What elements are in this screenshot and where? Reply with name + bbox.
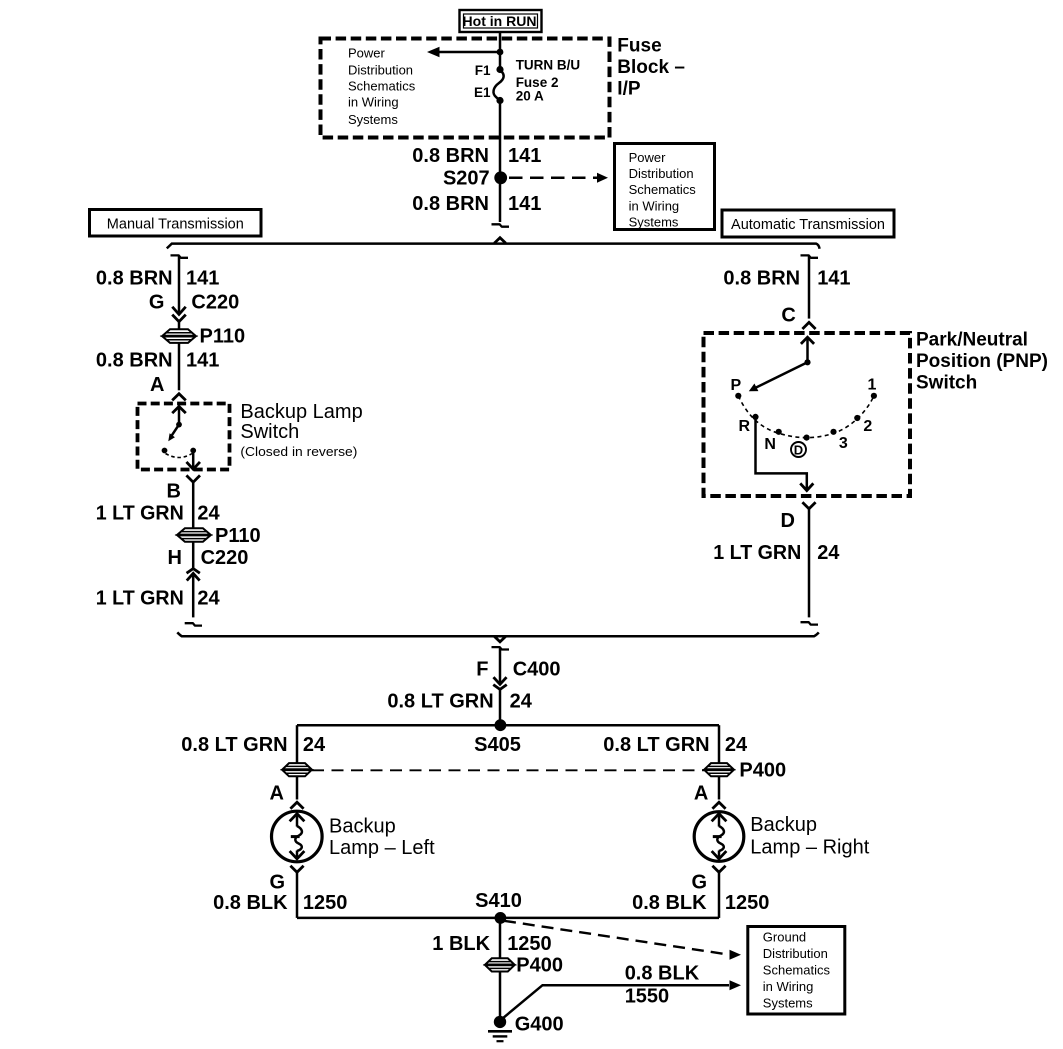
svg-text:C220: C220 [201, 547, 249, 569]
svg-text:0.8 BRN: 0.8 BRN [412, 193, 489, 215]
svg-text:Fuse: Fuse [617, 36, 661, 57]
wire 1 BLK 1250 down from S410 [499, 918, 502, 959]
svg-text:24: 24 [725, 734, 748, 756]
svg-text:141: 141 [186, 350, 219, 372]
svg-text:0.8 LT GRN: 0.8 LT GRN [603, 734, 709, 756]
svg-text:0.8 BRN: 0.8 BRN [96, 350, 173, 372]
svg-text:1 LT GRN: 1 LT GRN [96, 587, 184, 609]
svg-text:141: 141 [186, 268, 219, 290]
svg-text:S207: S207 [443, 167, 490, 189]
svg-text:0.8 BRN: 0.8 BRN [723, 268, 800, 290]
PNP circled D [791, 442, 806, 457]
node Automatic Transmission box [722, 210, 894, 237]
svg-text:I/P: I/P [617, 78, 641, 99]
svg-text:Systems: Systems [629, 215, 679, 230]
svg-text:A: A [694, 783, 708, 805]
svg-text:0.8 LT GRN: 0.8 LT GRN [387, 691, 493, 713]
wire top bus [167, 244, 820, 249]
switch blade with arrowhead [168, 425, 179, 442]
svg-text:Schematics: Schematics [348, 79, 416, 94]
backup lamp switch dashed box [138, 404, 230, 470]
svg-text:E1: E1 [474, 85, 491, 100]
svg-text:24: 24 [817, 542, 840, 564]
connector C220 pin G [149, 292, 239, 322]
terminal G right lamp [713, 867, 724, 873]
svg-text:P: P [730, 377, 741, 394]
wire 0.8 LT GRN 24 to S405 [499, 689, 502, 725]
svg-text:Distribution: Distribution [348, 62, 413, 77]
svg-text:TURN B/U: TURN B/U [516, 58, 581, 73]
svg-text:C: C [781, 304, 795, 326]
connector P400 (bottom) [485, 955, 563, 977]
svg-text:C400: C400 [513, 659, 561, 681]
svg-text:B: B [167, 481, 181, 503]
svg-text:D: D [794, 442, 803, 457]
switch contact right [190, 448, 196, 454]
PNP input arrow and pivot [802, 337, 813, 365]
svg-text:C220: C220 [191, 292, 239, 314]
svg-text:1 LT GRN: 1 LT GRN [713, 542, 801, 564]
svg-text:141: 141 [508, 145, 541, 167]
wire left drop to P400 [296, 725, 299, 763]
svg-text:R: R [739, 418, 751, 435]
svg-text:Power: Power [348, 45, 386, 60]
svg-text:G: G [692, 872, 708, 894]
switch travel dashed arc [166, 454, 193, 458]
svg-text:Position (PNP): Position (PNP) [916, 351, 1048, 372]
connector P400 (right) [705, 759, 787, 781]
svg-text:Distribution: Distribution [763, 946, 828, 961]
svg-text:S405: S405 [474, 734, 521, 756]
svg-text:1250: 1250 [725, 892, 770, 914]
reference box Power Distribution Schematics in Wiring Systems [615, 144, 715, 230]
svg-text:Power: Power [629, 150, 667, 165]
svg-text:G400: G400 [515, 1013, 564, 1035]
PNP switch dashed box [704, 333, 911, 496]
connector P400 (left) [283, 763, 312, 776]
node Hot in RUN box [460, 10, 542, 32]
svg-text:Switch: Switch [240, 421, 299, 443]
wire to P110 [178, 322, 181, 330]
dashed harness line between P400 halves [312, 769, 704, 771]
switch output arrow pin B [167, 451, 199, 503]
wire break curl right bottom [801, 622, 819, 624]
svg-text:0.8 LT GRN: 0.8 LT GRN [181, 734, 287, 756]
splice S207 [494, 171, 507, 184]
svg-text:Backup: Backup [329, 815, 396, 837]
lamp Backup Lamp - Right [694, 812, 869, 862]
svg-text:in Wiring: in Wiring [763, 979, 814, 994]
svg-text:(Closed in reverse): (Closed in reverse) [240, 444, 357, 459]
svg-text:D: D [781, 510, 795, 532]
svg-text:Switch: Switch [916, 372, 977, 393]
svg-text:Lamp – Left: Lamp – Left [329, 837, 435, 859]
svg-text:in Wiring: in Wiring [348, 95, 399, 110]
svg-text:20 A: 20 A [516, 88, 544, 103]
svg-text:0.8 BLK: 0.8 BLK [632, 892, 707, 914]
label Backup Lamp Switch [240, 401, 362, 459]
svg-text:0.8 BLK: 0.8 BLK [625, 962, 700, 984]
svg-text:H: H [168, 547, 182, 569]
svg-text:Systems: Systems [763, 995, 813, 1010]
connector C220 pin H [168, 542, 249, 580]
connector P110 (upper) [163, 326, 246, 348]
splice S410 [495, 912, 507, 924]
svg-text:Automatic Transmission: Automatic Transmission [731, 217, 885, 233]
terminal D of PNP switch [803, 503, 814, 509]
PNP selector arrow to P [749, 362, 808, 391]
svg-text:141: 141 [817, 268, 850, 290]
reference box Ground Distribution Schematics in Wiring Systems [748, 927, 845, 1015]
ground G400 [488, 1013, 564, 1041]
wire 0.8 BLK 1550 to ground distribution [503, 962, 742, 1018]
wire P400 to ground [499, 971, 502, 1017]
svg-text:F: F [476, 659, 488, 681]
dashed arrow S410 to ground distribution [504, 921, 741, 960]
switch contact left [162, 448, 168, 454]
svg-text:A: A [150, 374, 164, 396]
label Power Distribution Schematics in Wiring Systems (fuse block) [348, 45, 416, 127]
svg-text:0.8 BRN: 0.8 BRN [412, 145, 489, 167]
svg-text:Park/Neutral: Park/Neutral [916, 329, 1028, 350]
svg-text:1 LT GRN: 1 LT GRN [96, 503, 184, 525]
terminal G left lamp [291, 867, 302, 873]
wire arrow to power distribution (left) [427, 47, 503, 57]
svg-text:A: A [270, 783, 284, 805]
wire right drop to P400 [718, 725, 721, 763]
svg-text:Hot in RUN: Hot in RUN [463, 13, 537, 29]
node dip on bottom bus [495, 637, 504, 642]
wire B 1 LT GRN 24 [192, 482, 195, 528]
fuse block I/P dashed box [321, 39, 610, 138]
wire left branch top curl [171, 255, 189, 257]
wire from Hot in RUN to fuse [499, 32, 502, 70]
wire right branch top curl [801, 255, 819, 257]
connector P110 (lower) [177, 525, 260, 547]
node Manual Transmission box [90, 210, 262, 237]
svg-text:P400: P400 [516, 955, 563, 977]
svg-text:24: 24 [197, 503, 220, 525]
wire bottom bus [177, 632, 819, 636]
wire break curl left bottom [185, 623, 202, 625]
svg-text:Backup: Backup [750, 814, 817, 836]
label Fuse Block - I/P [617, 36, 685, 100]
wire fuse output down to S207 and below [499, 100, 502, 222]
wire P110 to backup lamp switch, 0.8 BRN 141 [178, 343, 181, 390]
svg-text:24: 24 [197, 587, 220, 609]
svg-text:Distribution: Distribution [629, 166, 694, 181]
PNP contact dots P R N mid D 3 2 1 [735, 393, 741, 399]
svg-text:Schematics: Schematics [629, 182, 697, 197]
node bump on top bus [495, 238, 504, 243]
svg-text:Schematics: Schematics [763, 963, 831, 978]
svg-text:G: G [149, 292, 165, 314]
terminal A left lamp [296, 776, 299, 800]
dashed arrow S207 to power distribution box [509, 173, 608, 183]
svg-text:P110: P110 [200, 326, 246, 348]
svg-text:Systems: Systems [348, 112, 398, 127]
wire S410 bus [297, 917, 719, 920]
PNP R wire to output [756, 417, 807, 491]
svg-text:1: 1 [867, 376, 876, 393]
splice S405 [495, 719, 507, 731]
lamp Backup Lamp - Left [272, 811, 436, 862]
svg-text:Block –: Block – [617, 57, 685, 78]
svg-text:2: 2 [863, 418, 872, 435]
wire left branch 0.8 BRN 141 [178, 257, 181, 315]
wire break curl below S207 wire [492, 224, 510, 226]
svg-text:Backup Lamp: Backup Lamp [240, 401, 362, 423]
svg-text:G: G [270, 872, 286, 894]
fuse TURN B/U Fuse 2 20A [474, 58, 580, 104]
PNP dashed arc [738, 396, 874, 438]
wire S405 bus [297, 724, 719, 727]
svg-text:S410: S410 [475, 890, 522, 912]
connector C400 pin F [476, 648, 560, 689]
svg-text:in Wiring: in Wiring [629, 198, 680, 213]
svg-text:P110: P110 [215, 525, 261, 547]
svg-text:1250: 1250 [303, 892, 348, 914]
svg-text:N: N [764, 436, 776, 453]
svg-text:0.8 BRN: 0.8 BRN [96, 268, 173, 290]
svg-text:3: 3 [839, 435, 848, 452]
label Park/Neutral Position (PNP) Switch [916, 329, 1048, 393]
svg-text:Lamp – Right: Lamp – Right [750, 837, 869, 859]
svg-text:1550: 1550 [625, 985, 670, 1007]
terminal A right lamp [718, 776, 721, 800]
wire 1 LT GRN 24 to bottom bus [192, 573, 195, 617]
svg-text:24: 24 [510, 691, 533, 713]
switch input arrow and pivot [173, 407, 185, 428]
svg-text:24: 24 [303, 734, 326, 756]
svg-text:Manual Transmission: Manual Transmission [107, 216, 244, 232]
svg-text:1250: 1250 [507, 933, 552, 955]
svg-text:F1: F1 [475, 63, 491, 78]
svg-text:Ground: Ground [763, 930, 806, 945]
wire break curl below bottom bus [492, 647, 510, 649]
svg-text:141: 141 [508, 193, 541, 215]
wire right branch 0.8 BRN 141 [808, 257, 811, 319]
svg-text:1 BLK: 1 BLK [432, 933, 490, 955]
svg-text:P400: P400 [739, 759, 786, 781]
svg-text:0.8 BLK: 0.8 BLK [213, 892, 288, 914]
wire 1 LT GRN 24 right branch [808, 509, 811, 618]
